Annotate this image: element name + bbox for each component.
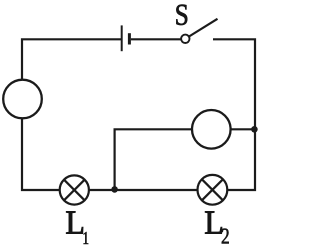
switch S lever arm <box>189 19 218 37</box>
wire battery to switch <box>131 38 183 40</box>
junction dot on right vertical <box>251 126 258 133</box>
battery cell: short plate <box>128 33 131 44</box>
label L2 <box>205 212 229 244</box>
meter (left circle) <box>3 80 42 119</box>
lamp L2 circle with cross <box>198 175 228 205</box>
wire switch to top-right corner, down right side <box>213 39 255 190</box>
battery cell: long plate <box>121 25 123 51</box>
wire middle branch horizontal + left vertical drop <box>115 129 255 189</box>
label S <box>176 5 187 25</box>
wire bottom middle (L1 to junction to L2) <box>88 189 198 191</box>
junction dot on bottom wire <box>111 186 118 193</box>
switch S pivot circle <box>181 35 189 43</box>
wire top-left segment (battery to left corner, down to meter) <box>22 39 122 82</box>
wire left-lower segment (meter to bottom-left corner to lamp L1) <box>22 116 60 190</box>
lamp L1 circle with cross <box>60 175 89 204</box>
meter (middle circle) <box>192 110 231 149</box>
label L1 <box>66 212 88 245</box>
